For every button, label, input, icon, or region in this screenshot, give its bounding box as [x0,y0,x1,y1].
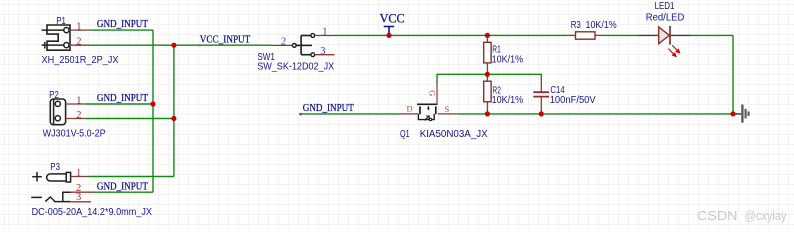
svg-text:1: 1 [322,27,327,38]
svg-text:CSDN: CSDN [697,208,738,223]
svg-text:1: 1 [76,95,81,106]
svg-text:2: 2 [76,110,81,121]
svg-text:GND_INPUT: GND_INPUT [303,103,355,114]
svg-text:R3: R3 [571,20,581,31]
wire right vertical to ground [732,35,734,114]
wire VCC_INPUT vertical bus [173,45,175,176]
svg-text:2: 2 [76,37,81,48]
svg-text:LED1: LED1 [655,1,675,12]
svg-text:GND_INPUT: GND_INPUT [97,19,149,30]
wire GND_INPUT to Q1 drain [300,113,399,115]
svg-text:VCC_INPUT: VCC_INPUT [200,34,251,45]
svg-text:10K/1%: 10K/1% [586,20,617,31]
svg-text:G: G [427,90,437,96]
svg-text:XH_2501R_2P_JX: XH_2501R_2P_JX [42,55,119,66]
svg-text:1: 1 [76,168,81,179]
connector P2 WJ301V-5.0-2P [50,99,65,125]
svg-text:P2: P2 [49,90,59,101]
capacitor C14 [540,78,542,93]
pin SW1.1 [315,35,335,37]
svg-text:3: 3 [76,192,81,203]
wire P2 pin1 to GND bus [86,103,154,105]
svg-text:P3: P3 [50,162,60,173]
switch SW1 SW_SK-12D02_JX [292,34,314,57]
svg-text:10K/1%: 10K/1% [492,54,524,65]
svg-text:D: D [407,103,413,113]
svg-text:GND_INPUT: GND_INPUT [97,181,149,192]
pin P3.2 [71,191,94,193]
svg-text:WJ301V-5.0-2P: WJ301V-5.0-2P [43,128,106,139]
svg-text:VCC: VCC [380,11,405,25]
wire P1 pin2 / VCC_INPUT to SW1 [90,44,272,46]
wire Q1 source to ground rail [457,113,733,115]
pin P1.1 [69,29,90,31]
svg-text:P1: P1 [56,16,66,27]
svg-text:10K/1%: 10K/1% [492,95,524,106]
wire P3 pin1 to VCC_INPUT bus [89,176,174,178]
wire GND vertical bus [152,30,154,192]
wire P2 pin2 to VCC_INPUT bus [86,118,174,120]
pin Q1 G [436,84,438,104]
svg-text:KIA50N03A_JX: KIA50N03A_JX [420,129,488,140]
pin P2.2 [66,118,86,120]
svg-text:3: 3 [320,46,325,57]
resistor R1 [486,35,488,42]
pin P3.1 [71,176,89,178]
wire LED1 to right corner [691,34,733,36]
connector P1 XH_2501R_2P_JX [42,25,71,50]
pin P3.3 [71,201,91,203]
pin P2.1 [66,103,86,105]
svg-text:DC-005-20A_14.2*9.0mm_JX: DC-005-20A_14.2*9.0mm_JX [32,207,153,218]
svg-text:1: 1 [76,22,81,33]
pin SW1.2 [272,44,293,46]
pin P1.2 [69,44,90,46]
svg-text:@cxylay: @cxylay [745,208,787,223]
pin Q1 S [438,113,458,115]
resistor R3 [568,34,576,36]
LED1 Red/LED [639,34,659,36]
wire P1 pin1 to GND bus [90,29,153,31]
svg-text:S: S [445,104,450,114]
ground [735,105,749,123]
wire gate rail [437,74,541,84]
svg-text:Q1: Q1 [400,129,410,140]
svg-text:GND_INPUT: GND_INPUT [97,93,149,104]
wire R3 to LED1 [604,34,639,36]
resistor R2 [486,74,488,81]
svg-text:SW_SK-12D02_JX: SW_SK-12D02_JX [257,61,334,72]
pin SW1.3 [315,54,335,56]
wire P3 pin2 to GND bus [94,191,153,193]
svg-text:Red/LED: Red/LED [646,13,685,24]
wire VCC rail SW1 to R3 [335,34,568,36]
transistor Q1 KIA50N03A_JX (NMOS) [417,104,438,120]
net flag VCC [384,27,394,36]
pin Q1 D [399,113,418,115]
net label anchor tick [199,44,201,46]
svg-text:100nF/50V: 100nF/50V [550,95,596,106]
net label anchor tick [299,113,301,115]
connector P3 DC-005-20A [31,172,70,202]
svg-text:2: 2 [281,37,286,48]
